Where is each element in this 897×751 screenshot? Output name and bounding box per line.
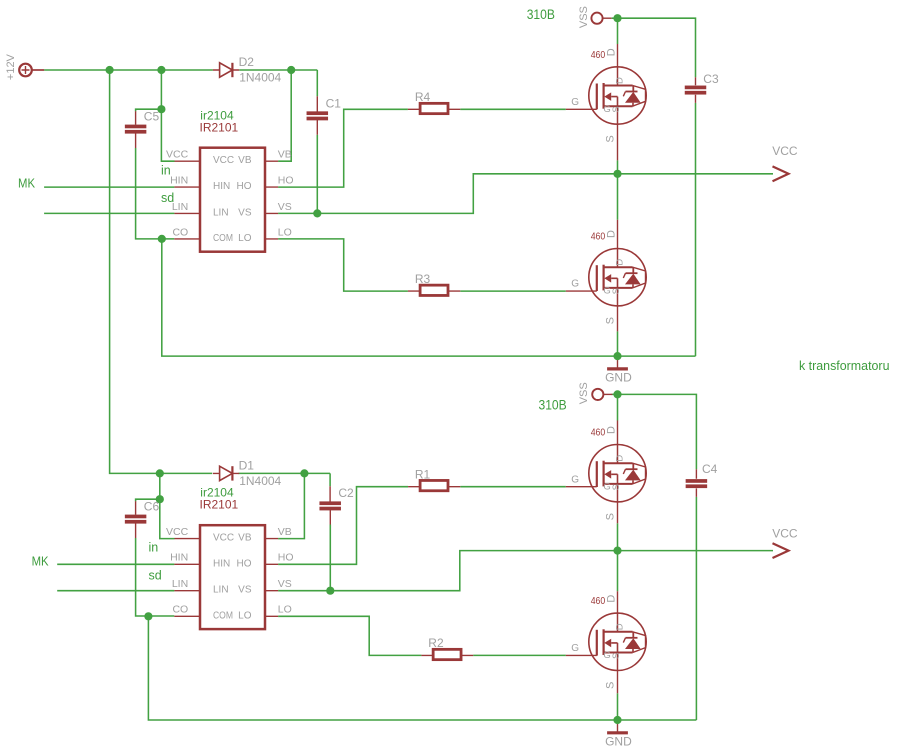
svg-text:LO: LO xyxy=(238,610,252,621)
svg-text:VCC: VCC xyxy=(166,526,189,538)
svg-text:HO: HO xyxy=(278,175,294,187)
svg-text:R4: R4 xyxy=(415,90,431,104)
svg-text:HO: HO xyxy=(237,558,252,569)
svg-text:k transformatoru: k transformatoru xyxy=(799,358,890,373)
svg-text:D: D xyxy=(605,595,617,603)
svg-text:COM: COM xyxy=(213,233,233,244)
svg-text:MK: MK xyxy=(18,175,35,190)
svg-text:CO: CO xyxy=(172,226,188,238)
svg-text:C1: C1 xyxy=(326,97,342,111)
svg-text:HO: HO xyxy=(237,181,252,192)
svg-text:D: D xyxy=(605,230,617,238)
svg-text:D: D xyxy=(605,48,617,56)
svg-text:S: S xyxy=(605,135,617,142)
svg-text:sd: sd xyxy=(149,569,162,583)
svg-text:LO: LO xyxy=(238,233,252,244)
svg-text:VS: VS xyxy=(238,207,252,218)
svg-text:VCC: VCC xyxy=(772,144,798,158)
svg-text:G: G xyxy=(571,97,579,108)
svg-text:460: 460 xyxy=(591,595,606,607)
svg-text:VSS: VSS xyxy=(578,382,590,404)
svg-text:G: G xyxy=(571,475,579,486)
svg-text:D1: D1 xyxy=(239,458,255,472)
svg-text:LO: LO xyxy=(278,226,292,238)
svg-text:GND: GND xyxy=(605,370,632,384)
svg-text:S: S xyxy=(611,106,622,112)
svg-text:HO: HO xyxy=(278,552,294,564)
svg-text:CO: CO xyxy=(172,604,188,616)
svg-text:G: G xyxy=(571,279,579,290)
svg-text:MK: MK xyxy=(32,553,49,568)
svg-text:GND: GND xyxy=(605,735,632,749)
svg-text:VCC: VCC xyxy=(166,149,189,161)
svg-text:COM: COM xyxy=(213,610,233,621)
svg-text:IR2101: IR2101 xyxy=(200,121,239,135)
svg-text:VS: VS xyxy=(278,578,292,590)
svg-text:D: D xyxy=(605,426,617,434)
svg-text:VB: VB xyxy=(278,526,292,538)
svg-text:VCC: VCC xyxy=(213,155,234,166)
svg-text:460: 460 xyxy=(591,49,606,61)
svg-text:LIN: LIN xyxy=(172,578,188,590)
svg-text:in: in xyxy=(149,541,159,555)
svg-text:G: G xyxy=(603,286,610,297)
svg-text:+12V: +12V xyxy=(5,53,17,80)
svg-text:LIN: LIN xyxy=(213,207,229,218)
svg-text:310B: 310B xyxy=(539,398,567,413)
svg-text:HIN: HIN xyxy=(170,552,188,564)
svg-text:460: 460 xyxy=(591,427,606,439)
svg-text:D: D xyxy=(614,623,625,630)
svg-text:HIN: HIN xyxy=(170,175,188,187)
svg-text:C6: C6 xyxy=(144,500,160,514)
svg-text:C2: C2 xyxy=(338,486,354,500)
svg-text:D: D xyxy=(614,77,625,84)
svg-text:VSS: VSS xyxy=(578,6,590,28)
svg-text:310B: 310B xyxy=(527,7,555,22)
svg-text:C3: C3 xyxy=(703,72,719,86)
svg-text:VCC: VCC xyxy=(772,527,798,541)
svg-text:LIN: LIN xyxy=(213,585,229,596)
svg-text:1N4004: 1N4004 xyxy=(239,70,281,84)
svg-text:in: in xyxy=(161,163,171,177)
svg-text:D: D xyxy=(614,259,625,266)
svg-text:HIN: HIN xyxy=(213,558,230,569)
svg-text:R1: R1 xyxy=(415,468,431,482)
svg-text:VS: VS xyxy=(238,585,252,596)
svg-text:VB: VB xyxy=(238,533,252,544)
svg-text:C4: C4 xyxy=(702,462,718,476)
svg-text:S: S xyxy=(611,288,622,294)
svg-text:VS: VS xyxy=(278,201,292,213)
svg-text:S: S xyxy=(605,513,617,520)
svg-text:HIN: HIN xyxy=(213,181,230,192)
svg-text:IR2101: IR2101 xyxy=(200,497,239,511)
svg-text:LIN: LIN xyxy=(172,201,188,213)
svg-text:G: G xyxy=(603,650,610,661)
svg-text:D: D xyxy=(614,455,625,462)
svg-text:VB: VB xyxy=(238,155,252,166)
svg-text:R2: R2 xyxy=(428,636,444,650)
svg-text:C5: C5 xyxy=(144,110,160,124)
svg-text:S: S xyxy=(611,484,622,490)
svg-text:G: G xyxy=(603,482,610,493)
svg-text:VB: VB xyxy=(278,149,292,161)
svg-text:1N4004: 1N4004 xyxy=(239,474,281,488)
svg-text:D2: D2 xyxy=(239,55,255,69)
svg-text:S: S xyxy=(605,317,617,324)
svg-text:LO: LO xyxy=(278,604,292,616)
svg-text:VCC: VCC xyxy=(213,533,234,544)
svg-text:R3: R3 xyxy=(415,272,431,286)
svg-text:G: G xyxy=(603,104,610,115)
svg-text:G: G xyxy=(571,643,579,654)
svg-text:S: S xyxy=(605,682,617,689)
svg-text:460: 460 xyxy=(591,231,606,243)
svg-text:S: S xyxy=(611,653,622,659)
svg-text:sd: sd xyxy=(161,191,174,205)
